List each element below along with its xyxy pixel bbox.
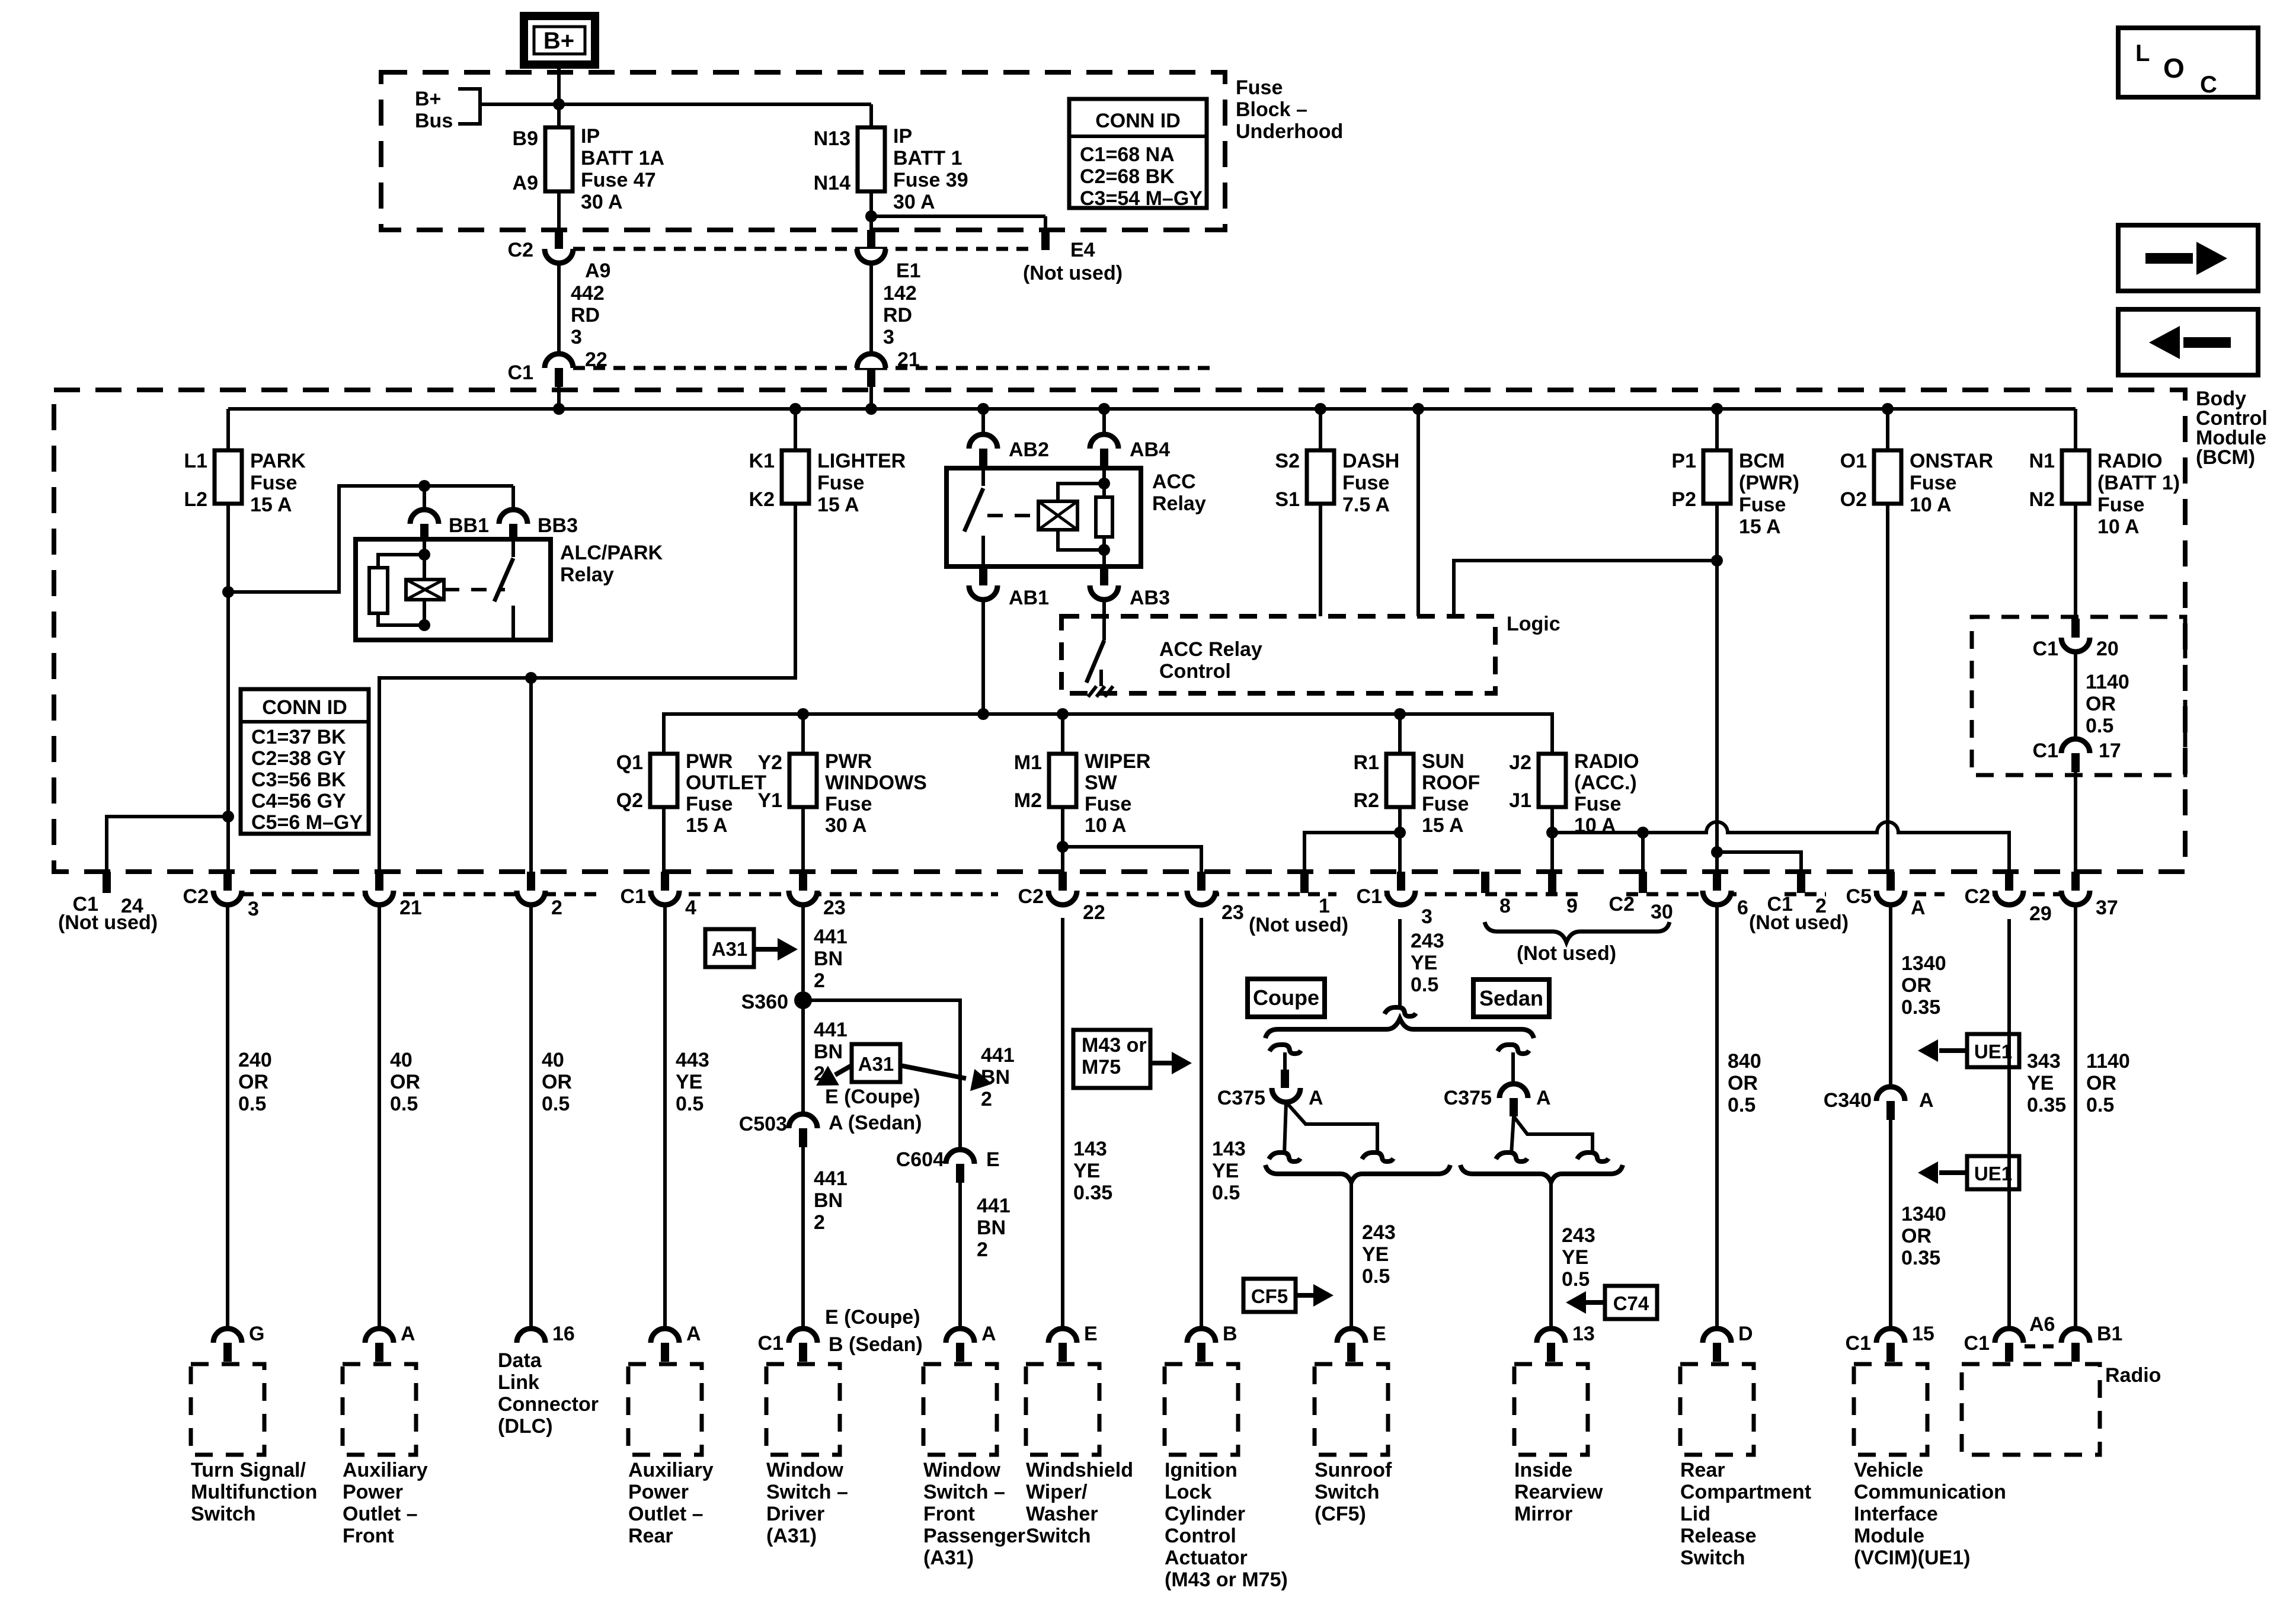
svg-text:B+: B+ [543,28,574,54]
svg-text:PWR: PWR [825,750,872,773]
svg-text:Fuse: Fuse [1342,472,1389,494]
svg-text:YE: YE [1073,1160,1100,1182]
connector row dashed (radio) [2025,1345,2060,1349]
svg-text:Fuse: Fuse [825,793,872,815]
svg-text:(BCM): (BCM) [2196,446,2255,469]
svg-text:YE: YE [676,1071,702,1093]
svg-text:(PWR): (PWR) [1739,472,1799,494]
CONN ID table (BCM) [241,689,369,834]
brace upper (coupe/sedan selector) [1265,1019,1534,1038]
svg-text:16: 16 [552,1323,575,1345]
svg-text:Module: Module [1854,1525,1924,1547]
svg-text:G: G [249,1323,264,1345]
connector C503 [789,1114,817,1128]
svg-text:R2: R2 [1354,789,1379,812]
svg-text:37: 37 [2096,897,2118,919]
switch sunroof (coupe) C375 [1269,1045,1301,1054]
svg-text:BB3: BB3 [538,514,578,537]
svg-text:Outlet –: Outlet – [628,1503,703,1525]
component box Auxiliary Power Outlet Rear [628,1364,702,1455]
svg-text:AB3: AB3 [1130,587,1170,609]
fuse S2/S1 DASH Fuse 7.5 A [1319,409,1322,450]
svg-text:Control: Control [1165,1525,1236,1547]
svg-text:(CF5): (CF5) [1315,1503,1366,1525]
fuse L1/L2 PARK Fuse 15 A [215,450,242,504]
ground chassis [1099,670,1103,686]
fuse K1/K2 LIGHTER Fuse 15 A [794,409,797,450]
svg-text:Y1: Y1 [757,789,782,812]
connector C340 pin A [1876,1087,1905,1101]
svg-text:A31: A31 [712,938,748,960]
svg-text:Cylinder: Cylinder [1165,1503,1245,1525]
svg-text:4: 4 [685,897,696,919]
svg-text:Fuse: Fuse [1910,472,1956,494]
node bus junctions [553,403,565,415]
svg-text:C3=54 M–GY: C3=54 M–GY [1080,187,1203,210]
battery terminal B+ [524,16,595,65]
svg-text:(VCIM)(UE1): (VCIM)(UE1) [1854,1547,1970,1569]
switch ALC relay contacts [511,539,515,557]
wire 442 RD 3 [557,263,561,354]
svg-text:243: 243 [1362,1221,1396,1244]
svg-text:3: 3 [883,326,894,348]
connector C1 pin 2 (not used) [1797,872,1805,893]
svg-text:Control: Control [1159,660,1231,683]
fuse block underhood dashed box [381,72,1225,230]
svg-text:A (Sedan): A (Sedan) [829,1112,922,1134]
connector pin 16 (Data Link Connector) [517,1329,545,1343]
svg-text:0.5: 0.5 [676,1093,703,1115]
wire AB3 to logic [1102,600,1106,638]
svg-text:N13: N13 [814,127,850,150]
svg-text:N2: N2 [2029,488,2055,511]
svg-text:2: 2 [551,897,562,919]
svg-text:AB1: AB1 [1009,587,1049,609]
component box Windshield Wiper Washer Switch [1026,1364,1099,1455]
svg-text:E: E [1084,1323,1098,1345]
wire 40 OR 0.5 (DLC) [529,905,533,1329]
svg-text:Switch: Switch [1026,1525,1091,1547]
svg-text:M75: M75 [1082,1056,1121,1078]
svg-text:A: A [401,1323,415,1345]
connector pin B (Ignition Lock Cylinder Control Actuator) [1187,1329,1216,1343]
svg-text:A9: A9 [513,172,538,194]
svg-text:441: 441 [977,1195,1011,1217]
connector C2 pin 3 [223,872,232,891]
svg-text:AB4: AB4 [1130,438,1170,461]
wire M2 output [1061,807,1064,872]
svg-text:C1: C1 [621,885,646,908]
connector C2 pin 29 [2005,872,2013,891]
connector pin A (Auxiliary Power Outlet Front) [365,1329,394,1343]
svg-text:B: B [1223,1323,1237,1345]
svg-text:YE: YE [1362,1243,1389,1266]
svg-text:Sunroof: Sunroof [1315,1459,1392,1481]
svg-text:30 A: 30 A [581,191,623,213]
svg-text:10 A: 10 A [2097,516,2140,538]
svg-text:0.35: 0.35 [1901,1247,1940,1269]
fuse Q1/Q2 PWR OUTLET 15 A [650,754,677,807]
svg-text:C: C [2200,72,2217,98]
svg-text:Rear: Rear [1680,1459,1725,1481]
svg-text:0.5: 0.5 [2086,1094,2114,1116]
svg-text:Fuse: Fuse [1422,793,1469,815]
legend arrow right box [2118,225,2258,291]
svg-text:8: 8 [1499,895,1511,917]
svg-text:Connector: Connector [498,1393,599,1416]
svg-text:Link: Link [498,1371,539,1394]
svg-text:(Not used): (Not used) [1249,914,1348,936]
svg-text:IP: IP [581,125,600,148]
svg-text:B9: B9 [513,127,538,150]
connector E1 [867,230,875,249]
svg-text:K1: K1 [749,450,775,472]
svg-text:Q2: Q2 [616,789,643,812]
svg-text:P1: P1 [1671,450,1696,472]
svg-text:RADIO: RADIO [1574,750,1639,773]
svg-text:3: 3 [1421,905,1432,928]
svg-text:Bus: Bus [415,110,453,132]
svg-text:Rear: Rear [628,1525,673,1547]
connector pin 37 [2071,872,2080,891]
svg-text:15 A: 15 A [817,494,859,516]
svg-text:15: 15 [1912,1323,1934,1345]
svg-text:O: O [2163,53,2185,84]
svg-text:P2: P2 [1671,488,1696,511]
tag UE1 pointer (upper) [1967,1034,2019,1067]
wire 143 YE 0.35 [1061,918,1064,1329]
wire 840 OR 0.5 [1715,905,1719,1329]
tag Sedan [1473,980,1549,1017]
wire 40 OR 0.5 (front outlet) [378,905,381,1329]
wire to radio pin 37 [2074,772,2077,872]
svg-text:B+: B+ [415,88,441,110]
wire R2 branch to pin 1 [1304,833,1400,872]
wire 1340 OR 0.35 (upper) [1889,905,1892,1087]
svg-text:Vehicle: Vehicle [1854,1459,1923,1481]
svg-text:A: A [1536,1087,1551,1109]
svg-text:OR: OR [2086,693,2116,715]
node B+ bus junction [553,98,565,110]
wire Q2 output [662,807,666,872]
wire PARK to C1 24 [222,811,234,822]
component box Ignition Lock Cylinder Control Actuator [1165,1364,1238,1455]
svg-text:C1: C1 [1357,885,1382,908]
svg-text:240: 240 [238,1049,272,1071]
svg-text:Power: Power [343,1481,403,1503]
svg-text:WIPER: WIPER [1085,750,1150,773]
connector pin 21 [857,354,885,368]
svg-text:E: E [1373,1323,1386,1345]
svg-text:Switch: Switch [1315,1481,1380,1503]
svg-text:0.5: 0.5 [1411,974,1438,996]
svg-text:(ACC.): (ACC.) [1574,772,1637,794]
svg-text:ACC Relay: ACC Relay [1159,638,1262,661]
connector C1 pin A6 (radio) [1995,1329,2023,1343]
svg-text:(Not used): (Not used) [1517,942,1616,965]
svg-text:(A31): (A31) [766,1525,817,1547]
svg-text:2: 2 [814,1211,825,1234]
svg-text:1340: 1340 [1901,1203,1946,1225]
sub box radio battery feed [1972,617,2185,775]
fuse R1/R2 SUN ROOF 15 A [1386,754,1414,807]
fuse P1/P2 BCM (PWR) Fuse 15 A [1715,409,1719,450]
svg-text:Block –: Block – [1236,98,1307,121]
svg-text:L: L [2135,40,2150,66]
svg-text:3: 3 [248,898,259,920]
node BB1 branch [418,480,430,492]
svg-text:21: 21 [897,348,920,371]
connector C1 pin 3 [1397,872,1405,891]
svg-text:Fuse: Fuse [1574,793,1621,815]
svg-text:RADIO: RADIO [2097,450,2163,472]
svg-text:C1: C1 [2033,740,2058,762]
svg-text:SW: SW [1085,772,1118,794]
svg-text:YE: YE [1411,952,1437,974]
svg-text:30 A: 30 A [825,814,867,837]
wire to ALC/PARK relay [228,486,513,592]
svg-text:C604: C604 [896,1148,944,1171]
svg-text:343: 343 [2027,1050,2061,1073]
svg-text:M1: M1 [1014,751,1042,774]
svg-text:BN: BN [977,1217,1006,1239]
wire J1 output [1550,807,1554,872]
svg-text:C3=56 BK: C3=56 BK [251,769,346,791]
wire J1 branch to radio pin 29 with hops [1552,822,2009,872]
wire bus drop to logic box [1416,409,1420,616]
svg-text:Power: Power [628,1481,689,1503]
svg-text:441: 441 [814,926,848,948]
svg-text:J1: J1 [1509,789,1531,812]
svg-text:2: 2 [981,1088,992,1110]
fuse N1/N2 RADIO (BATT 1) Fuse 10 A [2074,409,2077,450]
svg-text:0.35: 0.35 [2027,1094,2066,1116]
svg-text:Relay: Relay [560,564,614,586]
svg-text:443: 443 [676,1049,709,1071]
svg-text:0.5: 0.5 [1728,1094,1755,1116]
svg-text:M43 or: M43 or [1082,1034,1147,1057]
svg-text:C375: C375 [1444,1087,1492,1109]
svg-text:E: E [986,1148,1000,1171]
wire P2 output [1715,504,1719,872]
svg-text:A: A [1919,1089,1934,1112]
svg-text:BATT 1A: BATT 1A [581,147,664,169]
wire to pin 30 [1641,833,1645,872]
wire accessory feed [664,714,1552,754]
wire main power bus [228,407,2076,411]
svg-text:C2: C2 [1609,893,1635,916]
wire 443 YE 0.5 [663,905,667,1329]
wire C604 to passenger switch [958,1183,962,1329]
connector pin E (Sunroof Switch) [1337,1329,1366,1343]
svg-text:ACC: ACC [1152,470,1196,493]
svg-text:K2: K2 [749,488,775,511]
connector pin 21 [375,872,383,891]
svg-text:WINDOWS: WINDOWS [825,772,927,794]
coil ACC relay solenoid [1038,501,1077,530]
svg-text:Release: Release [1680,1525,1757,1547]
svg-text:0.5: 0.5 [1212,1182,1240,1204]
connector pin E (Windshield Wiper Washer Switch) [1048,1329,1077,1343]
svg-text:2: 2 [977,1238,988,1261]
svg-text:0.35: 0.35 [1073,1182,1112,1204]
coil ALC relay solenoid [406,580,444,600]
svg-text:PWR: PWR [686,750,733,773]
component box Rear Compartment Lid Release Switch [1680,1364,1754,1455]
CONN ID table (fuse block) [1069,99,1207,208]
connector C2 pin 22 [1059,872,1067,891]
svg-text:(Not used): (Not used) [1023,262,1123,284]
svg-text:(M43 or M75): (M43 or M75) [1165,1569,1288,1591]
connector C604 [946,1150,974,1164]
svg-text:OR: OR [1901,974,1932,997]
svg-text:N1: N1 [2029,450,2055,472]
wire logic to BCM PWR [1454,561,1717,616]
connector pin 2 [527,872,535,891]
svg-text:Inside: Inside [1514,1459,1572,1481]
svg-text:Data: Data [498,1349,542,1372]
svg-text:Interface: Interface [1854,1503,1938,1525]
svg-text:OR: OR [542,1071,572,1093]
svg-text:L1: L1 [184,450,207,472]
connector row dashed line (BCM bottom) [242,892,600,897]
svg-text:Switch: Switch [1680,1547,1745,1569]
svg-text:Fuse: Fuse [2097,494,2144,516]
component box Sunroof Switch [1315,1364,1388,1455]
svg-text:BN: BN [814,1189,843,1212]
svg-text:OR: OR [2086,1072,2116,1094]
svg-text:6: 6 [1737,897,1748,919]
svg-text:A: A [981,1323,996,1345]
svg-text:D: D [1738,1323,1753,1345]
wire 243 YE 0.5 [1398,919,1402,1007]
connector pin D (Rear Compartment Lid Release Switch) [1703,1329,1731,1343]
svg-text:21: 21 [399,897,422,919]
switch ACC relay control [1102,616,1106,641]
svg-text:RD: RD [571,304,600,327]
wire 240 OR 0.5 [226,905,229,1329]
fuse M1/M2 WIPER SW 10 A [1049,754,1076,807]
svg-text:(Not used): (Not used) [1749,911,1849,934]
svg-text:C1: C1 [1846,1332,1871,1355]
svg-text:ONSTAR: ONSTAR [1910,450,1993,472]
svg-text:441: 441 [814,1167,848,1190]
wire dashed relay linkage [987,514,1038,517]
svg-text:13: 13 [1572,1323,1595,1345]
svg-text:A: A [1911,897,1926,919]
svg-text:OR: OR [238,1071,268,1093]
connector C1 pin 22 [545,354,573,368]
connector pin B1 (radio) [2061,1329,2090,1343]
svg-text:Lock: Lock [1165,1481,1211,1503]
svg-text:BN: BN [814,1041,843,1063]
connector pin 9 (not used) [1548,872,1556,893]
svg-text:Compartment: Compartment [1680,1481,1811,1503]
svg-text:Actuator: Actuator [1165,1547,1248,1569]
node B+ Bus bracket [458,89,480,124]
svg-text:O1: O1 [1840,450,1867,472]
svg-text:A9: A9 [585,260,610,282]
svg-text:O2: O2 [1840,488,1867,511]
svg-text:Passenger: Passenger [923,1525,1025,1547]
connector AB4 [1102,409,1106,434]
svg-text:BN: BN [981,1066,1010,1089]
component box Window Switch Driver [766,1364,840,1455]
svg-text:IP: IP [893,125,912,148]
switch sunroof (sedan) C375 [1498,1045,1529,1054]
svg-text:C2: C2 [183,885,209,908]
relay ALC/PARK box [356,539,551,640]
wire dashed relay linkage [444,588,505,591]
wire R2 output [1398,807,1402,872]
svg-text:C74: C74 [1613,1292,1649,1314]
wire S360 branch to passenger switch [803,1000,960,1150]
svg-text:RD: RD [883,304,912,327]
wire 243 YE 0.5 to mirror [1549,1182,1553,1329]
svg-text:29: 29 [2029,902,2052,925]
connector AB3 [1100,566,1108,585]
svg-text:15 A: 15 A [686,814,728,837]
svg-text:Front: Front [923,1503,975,1525]
svg-text:Switch –: Switch – [923,1481,1005,1503]
tag C74 pointer [1605,1286,1657,1319]
svg-text:143: 143 [1212,1138,1246,1160]
connector C1 pin 20 [2071,619,2080,638]
svg-text:SUN: SUN [1422,750,1464,773]
svg-text:243: 243 [1411,930,1444,952]
wire K2 output to 21/2 connectors [379,504,795,872]
svg-text:C1=37 BK: C1=37 BK [251,726,346,748]
svg-text:Fuse: Fuse [250,472,297,494]
svg-text:C2: C2 [1018,885,1044,908]
svg-text:Fuse 47: Fuse 47 [581,169,656,191]
connector AB2 [981,409,985,434]
wire Y1 output [801,807,805,872]
svg-text:N14: N14 [814,172,850,194]
tag A31 double pointer [852,1044,900,1082]
svg-text:143: 143 [1073,1138,1107,1160]
svg-text:142: 142 [883,282,917,305]
wire to connector 2 [529,678,533,872]
svg-text:0.35: 0.35 [1901,996,1940,1019]
wire 1340 OR 0.35 (lower) [1889,1120,1892,1329]
svg-text:Switch: Switch [191,1503,256,1525]
svg-text:J2: J2 [1509,751,1531,774]
svg-text:Fuse: Fuse [686,793,733,815]
component box Vehicle Communication Interface Module [1854,1364,1927,1455]
connector C1 pin 17 [2061,739,2090,753]
svg-text:S2: S2 [1275,450,1300,472]
svg-text:YE: YE [1212,1160,1239,1182]
svg-text:A: A [1309,1087,1323,1109]
wire fuse N14 output branch to E4 [869,191,873,230]
wire 1140 OR 0.5 [2074,905,2077,1329]
wire fuse A9 output to connector C2 [557,191,561,230]
svg-text:23: 23 [1221,901,1244,924]
svg-text:Logic: Logic [1507,613,1560,635]
svg-text:2: 2 [814,969,825,992]
svg-text:9: 9 [1566,895,1578,917]
svg-text:17: 17 [2099,740,2121,762]
wire 142 RD 3 [869,263,873,354]
wire P2 branch to pin C1 2 [1717,852,1801,872]
svg-text:E (Coupe): E (Coupe) [825,1086,920,1108]
svg-text:BB1: BB1 [449,514,489,537]
tag A31 pointer [705,929,754,967]
connector pin 1 (not used) [1300,872,1309,893]
resistor ALC relay coil shunt [378,555,424,568]
node splice S360 [794,991,812,1009]
